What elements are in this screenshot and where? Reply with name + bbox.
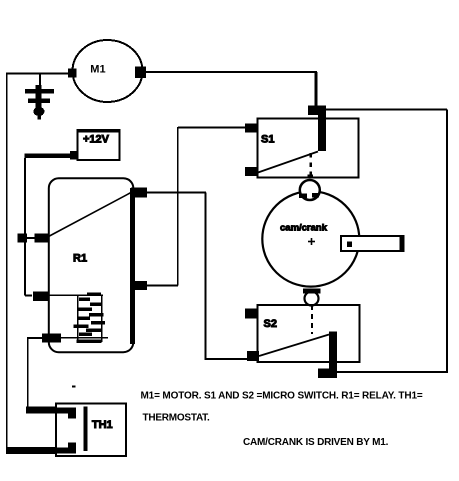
svg-text:M1= MOTOR. S1 AND S2 =MICRO SW: M1= MOTOR. S1 AND S2 =MICRO SWITCH. R1= … — [141, 391, 423, 402]
node R1 arm terminal — [35, 234, 49, 243]
node R1 coil terminal — [33, 291, 49, 301]
svg-text:+12V: +12V — [83, 134, 110, 146]
wire — [27, 337, 42, 339]
node M1 right terminal — [135, 67, 146, 79]
node cam center — [308, 238, 315, 245]
wire — [147, 192, 206, 194]
micro switch S2 — [258, 305, 360, 362]
wire — [24, 158, 26, 296]
svg-text:M1: M1 — [90, 64, 105, 76]
svg-text:S1: S1 — [261, 134, 274, 146]
supply +12V — [78, 130, 120, 160]
S2 dashed link — [311, 305, 313, 334]
wire — [315, 72, 318, 107]
micro switch S1 — [258, 119, 359, 178]
svg-text:R1: R1 — [73, 252, 87, 264]
TH1 upper lead — [26, 407, 76, 419]
TH1 lower lead — [6, 443, 76, 454]
node crank pin — [347, 242, 352, 248]
wire — [147, 285, 178, 287]
wire — [446, 110, 448, 374]
wire — [25, 295, 32, 297]
TH1 contact bar — [84, 407, 88, 452]
wire — [204, 358, 247, 360]
wire — [6, 73, 8, 451]
relay arm R1 — [49, 193, 132, 237]
node R1 terminal NO — [131, 188, 147, 198]
svg-text:CAM/CRANK IS DRIVEN BY M1.: CAM/CRANK IS DRIVEN BY M1. — [243, 437, 389, 448]
motor M1 — [73, 40, 143, 102]
wire — [177, 127, 179, 286]
wire — [178, 127, 245, 129]
switch arm S2 — [259, 335, 329, 357]
node R1 terminal — [131, 281, 147, 290]
wire — [326, 109, 447, 111]
wire — [6, 73, 69, 75]
S1 dashed link — [310, 153, 313, 179]
wire — [337, 371, 447, 373]
cam/crank disc — [262, 191, 359, 286]
wire — [27, 237, 35, 239]
wire — [146, 71, 317, 73]
svg-text:THERMOSTAT.: THERMOSTAT. — [143, 412, 210, 423]
crank arm — [341, 236, 403, 251]
node M1 left terminal — [68, 69, 77, 78]
node +12V terminal — [70, 151, 78, 160]
wire — [27, 338, 29, 408]
node S1 terminal — [245, 167, 258, 176]
wire — [204, 193, 206, 359]
node stray dot — [72, 386, 76, 388]
node junction — [18, 234, 28, 243]
svg-text:S2: S2 — [264, 318, 277, 330]
relay R1 — [49, 178, 134, 352]
roller top follower — [300, 180, 320, 200]
node S2 terminal — [245, 309, 257, 319]
wire — [25, 154, 71, 159]
relay coil — [49, 295, 109, 342]
S1 actuator bar — [318, 106, 326, 151]
S2 actuator bar — [329, 332, 337, 379]
node S2 terminal — [247, 351, 259, 361]
roller bottom follower — [305, 292, 319, 306]
node R1 coil terminal 2 — [42, 334, 61, 343]
thermostat TH1 — [56, 403, 126, 456]
svg-text:TH1: TH1 — [92, 419, 113, 431]
svg-text:cam/crank: cam/crank — [280, 223, 328, 234]
S2 actuator foot — [318, 369, 337, 379]
switch arm S1 — [258, 152, 318, 173]
label cam/crank — [6, 129, 360, 456]
node S1 terminal — [245, 124, 257, 133]
node S1 common junction — [308, 106, 326, 116]
ground — [25, 74, 54, 120]
node S1 bottom pin — [308, 175, 314, 179]
